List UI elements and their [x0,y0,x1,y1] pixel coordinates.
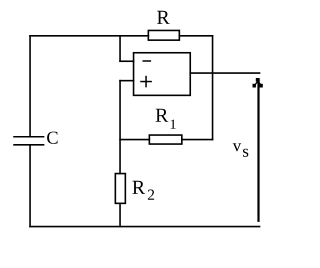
vs arrow shaft [257,80,259,222]
wire: non-inverting input horizontal into op-amp [120,80,134,82]
wire: R1 left terminal [120,139,149,141]
label vs subscript s [243,149,248,157]
wire: feedback vertical (R down past output net to R1 right terminal) [212,36,214,140]
label R1 designator [156,109,169,122]
label R1 subscript 1 [171,120,176,129]
wire: left rail lower segment (capacitor bottom plate to bottom rail) [29,145,31,227]
capacitor C bottom plate [14,144,44,146]
wire: bottom rail (ground return) [30,226,259,228]
op-amp U1 body [134,53,191,96]
label R2 subscript 2 [148,190,154,200]
capacitor C top plate [14,136,44,138]
label C (capacitor designator) [47,132,57,144]
wire: inverting input vertical drop from top net [119,36,121,61]
wire: inverting input horizontal into op-amp [120,60,134,62]
resistor R2 body [115,174,125,204]
op-amp U1 non-inverting input symbol (plus) [140,76,152,88]
wire: op-amp output net to vs node [190,72,259,74]
wire: middle vertical (non-inverting input down through R1 left node to R2 top) [119,81,121,174]
vs arrow head [253,78,263,88]
op-amp U1 inverting input symbol (minus) [143,60,152,62]
wire: R2 bottom terminal to bottom rail [119,203,121,226]
wire: resistor R right terminal to feedback corner [179,35,212,37]
wire: R1 right terminal to feedback vertical [182,139,213,141]
wire: top net from left rail corner to resistor R left terminal [30,35,148,37]
label vs output voltage v [233,143,242,151]
resistor R1 body [149,135,182,144]
label R2 designator [132,181,145,194]
resistor R body [148,30,179,40]
wire: left rail upper segment (top corner down to capacitor top plate) [29,36,31,137]
label R (feedback resistor designator) [157,11,170,24]
